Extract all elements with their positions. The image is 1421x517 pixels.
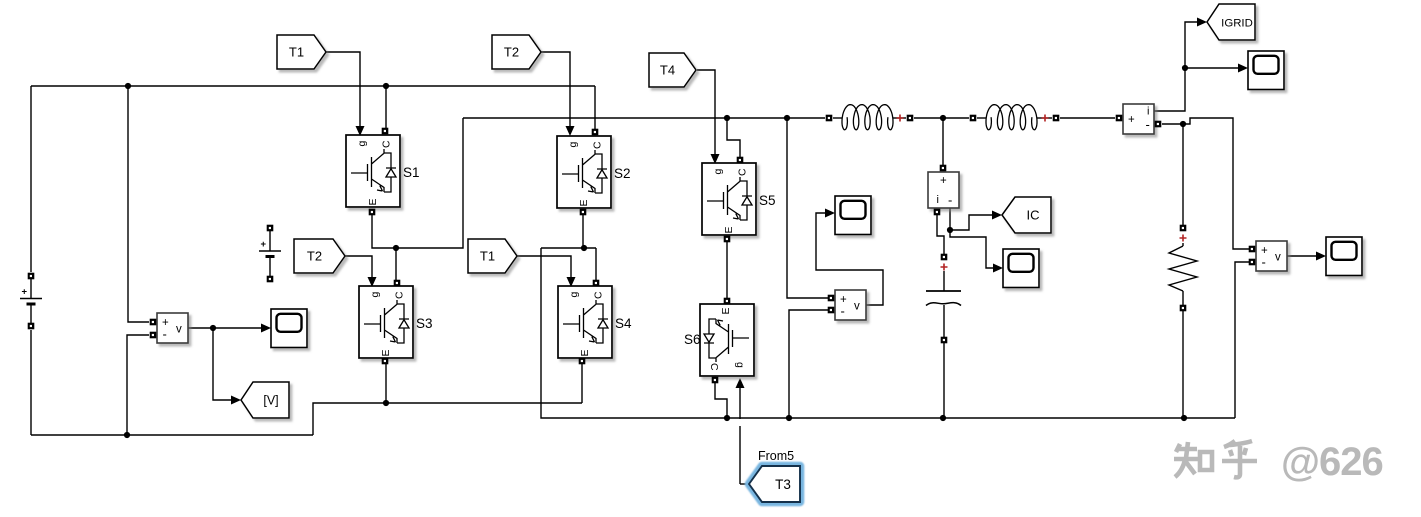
svg-text:-: - xyxy=(841,304,845,319)
svg-text:S1: S1 xyxy=(403,165,420,180)
wire resistor lead top xyxy=(1182,243,1184,246)
svg-text:i: i xyxy=(937,194,939,206)
wire From T4 to S5 gate xyxy=(697,70,715,155)
svg-text:C: C xyxy=(381,140,393,148)
wire CM2 minus to capacitor xyxy=(937,215,944,254)
port V2 + xyxy=(828,295,835,302)
wire DC- bottom rail left xyxy=(31,434,313,436)
arrowhead into scope5 xyxy=(1316,252,1326,261)
svg-text:v: v xyxy=(854,301,860,313)
svg-text:+: + xyxy=(261,239,267,250)
wire V1 output to scope1 xyxy=(188,327,262,329)
wire capacitor to phase-B rail xyxy=(943,343,945,418)
from tag T1 (S4 gate) xyxy=(468,239,517,273)
svg-text:E: E xyxy=(367,198,379,205)
node CM1 minus split xyxy=(1180,121,1186,127)
svg-text:C: C xyxy=(592,141,604,149)
svg-text:g: g xyxy=(567,142,579,148)
node phase-A / V2 tap xyxy=(784,115,790,121)
node phase-A / capacitor branch xyxy=(940,115,946,121)
resistor R load xyxy=(1169,246,1197,291)
from tag T3 (selected, blue highlight) with From5 label xyxy=(749,449,800,502)
wire S5 emitter to S6 emitter xyxy=(726,239,728,298)
node phase-B / resistor xyxy=(1181,415,1187,421)
battery DC source E2 (unconnected) xyxy=(259,228,281,279)
wire CM2 signal to goto IC xyxy=(950,215,993,230)
polarity mark L1 xyxy=(897,115,904,122)
wire DC+ top rail xyxy=(31,85,595,87)
port S2 C xyxy=(592,129,599,136)
arrowhead into S4 gate xyxy=(567,277,576,287)
svg-text:v: v xyxy=(176,324,182,336)
ammeter CM1 (grid current) xyxy=(1123,104,1154,134)
node V1 output split xyxy=(210,325,216,331)
transistor S3 (IGBT/Diode block) xyxy=(359,286,413,358)
arrowhead into scope1 xyxy=(261,324,271,333)
wire to load resistor top xyxy=(1182,124,1184,225)
battery DC source E1 xyxy=(20,276,42,326)
port S5 C xyxy=(737,157,744,164)
node phase-B / S6 collector xyxy=(724,415,730,421)
wire V3 output to scope5 xyxy=(1286,255,1317,257)
wire DC- to voltmeter V1 minus xyxy=(127,335,149,435)
wire V2 output to scope2 xyxy=(816,213,883,305)
node phase-B / V2 tap xyxy=(786,415,792,421)
svg-text:C: C xyxy=(394,291,406,299)
port L1 left xyxy=(826,115,833,122)
goto tag IC xyxy=(1002,197,1051,233)
arrowhead into S1 gate xyxy=(356,126,365,136)
port S4 E xyxy=(579,358,586,365)
svg-text:C: C xyxy=(708,363,720,371)
wire phase-A node to current sensor CM2 xyxy=(942,118,944,165)
wire resistor to phase-B rail xyxy=(1182,311,1184,418)
svg-text:+: + xyxy=(22,287,28,298)
node DC+ / S1 collector xyxy=(383,83,389,89)
port battery E1 + xyxy=(28,273,35,280)
port C1 bottom xyxy=(941,337,948,344)
wire S2 collector to DC+ rail xyxy=(594,86,596,131)
svg-text:g: g xyxy=(369,292,381,298)
port V3 + xyxy=(1249,246,1256,253)
port R bottom xyxy=(1180,305,1187,312)
svg-text:E: E xyxy=(720,307,732,314)
wire battery negative down xyxy=(30,330,32,435)
port S2 E xyxy=(580,209,587,216)
svg-text:g: g xyxy=(356,141,368,147)
svg-text:-: - xyxy=(163,327,167,342)
port S1 C xyxy=(382,128,389,135)
transistor S2 (IGBT/Diode block) xyxy=(557,136,611,208)
wire S6 collector to phase-B rail xyxy=(715,382,727,418)
wire phase-A to S5 collector xyxy=(727,118,740,157)
wire resistor lead bottom xyxy=(1182,291,1184,305)
port V2 - xyxy=(828,307,835,314)
wire CM1 minus to voltmeter V3 plus xyxy=(1183,118,1249,249)
svg-text:IGRID: IGRID xyxy=(1221,18,1253,30)
port V1 - xyxy=(150,332,157,339)
svg-text:g: g xyxy=(734,362,746,368)
from tag T1 (S1 gate) xyxy=(277,35,326,69)
wire From T2 to S2 gate xyxy=(541,52,570,127)
wire node to S4 collector xyxy=(595,248,597,280)
port S5 E xyxy=(724,236,731,243)
transistor S6 (IGBT/Diode block) xyxy=(700,304,754,376)
wire L1 left lead xyxy=(833,117,842,119)
inductor L2 xyxy=(986,105,1037,130)
voltmeter V2 (inverter output) xyxy=(835,290,866,320)
port S3 C xyxy=(394,280,401,287)
watermark Zhihu logo text (decorative) xyxy=(1174,441,1257,477)
wire CM2 signal out xyxy=(949,208,951,230)
wire phase-B rail to voltmeter V3 minus xyxy=(1235,262,1249,418)
node phase-A (S1.E-S3.C) xyxy=(393,245,399,251)
wire CM1 signal to goto IGRID xyxy=(1154,22,1198,111)
svg-text:C: C xyxy=(593,291,605,299)
wire CM1 signal to scope4 xyxy=(1185,67,1239,69)
wire phase-B bottom rail xyxy=(541,248,1235,418)
svg-text:T1: T1 xyxy=(480,249,495,264)
wire From T2 to S3 gate xyxy=(345,256,372,278)
wire CM2 signal to scope3 xyxy=(950,230,995,268)
port C1 top xyxy=(941,254,948,261)
svg-text:g: g xyxy=(712,169,724,175)
ammeter CM2 (capacitor current) xyxy=(928,172,959,208)
arrowhead into scope2 xyxy=(825,209,835,218)
wire node to S3 collector xyxy=(395,248,397,280)
wire S2 emitter down xyxy=(582,212,584,248)
node CM1 signal split xyxy=(1182,65,1188,71)
wire L1 right lead xyxy=(893,117,906,119)
voltmeter V1 (DC bus) xyxy=(157,313,188,343)
svg-text:T2: T2 xyxy=(307,249,322,264)
wire phase-A rail to inductor L1 xyxy=(463,117,825,119)
arrowhead into goto IGRID xyxy=(1197,18,1207,27)
wire From T1 to S4 gate xyxy=(517,256,571,278)
wire S2 emitter node horizontal xyxy=(541,247,596,249)
port S4 C xyxy=(593,280,600,287)
wire L1 to L2 xyxy=(914,117,969,119)
from tag T2 (S2 gate) xyxy=(492,35,541,69)
wire CM1 minus out xyxy=(1162,123,1183,125)
wire From T1 to S1 gate xyxy=(326,52,360,127)
svg-text:IC: IC xyxy=(1027,208,1040,223)
wire phase-A to voltmeter V2 plus xyxy=(787,118,828,298)
scope2 (inverter voltage) xyxy=(835,196,871,235)
svg-text:+: + xyxy=(1128,114,1135,126)
wire L2 left lead xyxy=(977,117,986,119)
polarity mark L2 xyxy=(1042,115,1049,122)
node phase-B (S2.E-S4.C) xyxy=(581,245,587,251)
polarity mark R xyxy=(1180,235,1187,242)
svg-text:T2: T2 xyxy=(504,45,519,60)
wire S3 emitter to DC- rail xyxy=(385,363,387,403)
scope5 (grid voltage) xyxy=(1326,237,1362,276)
wire V1 output to goto [V] xyxy=(213,328,231,400)
goto tag [V] xyxy=(241,382,289,418)
arrowhead into scope3 xyxy=(993,264,1003,273)
voltmeter V3 (grid voltage) xyxy=(1256,241,1287,271)
arrowhead into S3 gate xyxy=(368,277,377,287)
node DC- / S3 emitter xyxy=(383,400,389,406)
wire S1 collector to DC+ rail xyxy=(385,86,387,131)
wire DC+ to voltmeter V1 plus xyxy=(128,86,149,322)
from tag T4 (S5 gate) xyxy=(649,53,696,87)
scope1 (DC voltage) xyxy=(271,309,307,348)
scope3 (capacitor current) xyxy=(1003,249,1039,288)
node DC+ / V1 tap xyxy=(125,83,131,89)
port L2 right xyxy=(1053,115,1060,122)
port S3 E xyxy=(382,358,389,365)
svg-text:S5: S5 xyxy=(759,193,776,208)
port R top xyxy=(1180,225,1187,232)
port V3 - xyxy=(1249,259,1256,266)
wire capacitor bottom lead xyxy=(943,305,945,337)
wire From T3 to S6 gate (above rail) xyxy=(739,387,741,419)
svg-text:S4: S4 xyxy=(615,316,632,331)
svg-text:E: E xyxy=(579,349,591,356)
transistor S4 (IGBT/Diode block) xyxy=(558,286,612,358)
port CM1 - xyxy=(1155,121,1162,128)
arrowhead into S5 gate xyxy=(711,154,720,164)
port L1 right xyxy=(907,115,914,122)
wire L2 right lead xyxy=(1037,117,1052,119)
svg-text:+: + xyxy=(940,175,947,187)
wire DC- rail step up to emitter rail xyxy=(313,403,582,435)
from tag T2 (S3 gate) xyxy=(294,239,345,273)
capacitor C1 plates xyxy=(926,290,961,292)
svg-text:g: g xyxy=(568,292,580,298)
svg-text:v: v xyxy=(1275,252,1281,264)
arrowhead into S2 gate xyxy=(566,126,575,136)
svg-text:E: E xyxy=(723,226,735,233)
arrowhead into scope4 xyxy=(1238,64,1248,73)
port L2 left xyxy=(970,115,977,122)
svg-text:[V]: [V] xyxy=(263,394,278,408)
svg-text:E: E xyxy=(578,199,590,206)
port battery E2 + xyxy=(267,225,274,232)
svg-text:S3: S3 xyxy=(416,316,433,331)
wire battery positive to rail xyxy=(30,86,32,272)
arrowhead into goto [V] xyxy=(231,396,241,405)
svg-text:@626: @626 xyxy=(1281,440,1383,484)
node phase-A / S5 collector xyxy=(724,115,730,121)
arrowhead into S6 gate xyxy=(736,378,745,388)
port battery E2 - xyxy=(267,276,274,283)
port S6 C xyxy=(712,377,719,384)
wire From T3 up (below rail) xyxy=(739,426,741,484)
svg-text:T1: T1 xyxy=(289,45,304,60)
wire S1 emitter to phase-A node xyxy=(372,118,463,248)
port S6 E xyxy=(724,298,731,305)
port battery E1 - xyxy=(28,323,35,330)
wire L2 to current sensor CM1 xyxy=(1060,117,1115,119)
svg-text:i: i xyxy=(1147,106,1149,118)
svg-text:From5: From5 xyxy=(758,449,794,463)
wire voltmeter V2 minus to phase-B rail xyxy=(789,310,828,418)
port CM2 - xyxy=(934,209,941,216)
wire capacitor plus lead xyxy=(943,271,945,291)
svg-text:S2: S2 xyxy=(614,166,631,181)
port V1 + xyxy=(150,319,157,326)
transistor S1 (IGBT/Diode block) xyxy=(346,135,400,207)
port S1 E xyxy=(369,209,376,216)
node DC- / V1 tap xyxy=(124,432,130,438)
goto tag IGRID xyxy=(1207,4,1255,40)
port CM1 + xyxy=(1116,115,1123,122)
svg-text:T4: T4 xyxy=(660,63,675,78)
svg-text:T3: T3 xyxy=(775,477,791,492)
svg-text:S6: S6 xyxy=(684,332,701,347)
svg-text:C: C xyxy=(737,168,749,176)
arrowhead into goto IC xyxy=(992,211,1002,220)
svg-text:E: E xyxy=(380,349,392,356)
polarity mark C1 xyxy=(941,264,948,271)
transistor S5 (IGBT/Diode block) xyxy=(702,163,756,235)
scope4 (grid current) xyxy=(1248,51,1284,90)
node CM2 signal split xyxy=(947,227,953,233)
wire From T3 stub xyxy=(740,483,749,485)
port CM2 + xyxy=(940,165,947,172)
svg-text:-: - xyxy=(1262,255,1266,270)
svg-text:-: - xyxy=(1146,117,1150,132)
wire S4 emitter to DC- rail xyxy=(581,363,583,403)
node phase-B / capacitor xyxy=(940,415,946,421)
inductor L1 xyxy=(842,105,893,130)
svg-text:-: - xyxy=(948,193,952,208)
